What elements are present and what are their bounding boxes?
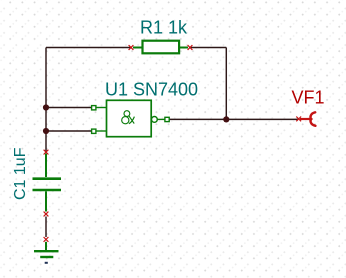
wire left vertical from top corner down to capacitor <box>45 48 47 153</box>
ground pin cross <box>44 237 49 242</box>
capacitor C1 bottom stub <box>45 191 47 211</box>
label U1 SN7400 <box>105 80 198 100</box>
svg-text:C1 1uF: C1 1uF <box>12 147 29 200</box>
U1 inversion bubble <box>152 117 158 123</box>
wire gate output to junction <box>169 118 226 120</box>
wire gate input 2 <box>46 130 92 132</box>
label VF1 <box>292 88 325 108</box>
resistor R1 body <box>133 41 188 54</box>
wire top from left corner to resistor left pin <box>46 47 131 49</box>
capacitor C1 pin cross top <box>44 150 49 155</box>
capacitor C1 bottom plate <box>33 189 62 192</box>
junction node B (left wire / input 2) <box>43 128 49 134</box>
wire gate input 1 <box>46 107 92 109</box>
capacitor C1 top plate <box>33 177 62 180</box>
junction node C (output / feedback / probe) <box>223 116 229 122</box>
U1 pin 1 square (input 1) <box>92 106 107 110</box>
svg-text:VF1: VF1 <box>292 88 325 108</box>
U1 output pin square <box>157 117 169 121</box>
label R1 1k <box>140 18 188 38</box>
svg-text:U1 SN7400: U1 SN7400 <box>105 80 198 100</box>
capacitor C1 top stub <box>45 154 47 178</box>
VF1 probe symbol <box>300 112 315 126</box>
resistor R1 pin cross left <box>129 45 134 50</box>
wire junction to VF1 probe <box>226 118 298 120</box>
junction node A (left wire / input 1) <box>43 104 49 110</box>
capacitor C1 pin cross bottom <box>44 212 49 217</box>
NAND gate U1 SN7400 body <box>107 100 152 136</box>
VF1 probe pin cross <box>296 117 301 122</box>
U1 pin 2 square (input 2) <box>92 129 107 133</box>
ground symbol <box>34 242 59 263</box>
resistor R1 pin cross right <box>188 45 193 50</box>
label C1 1uF <box>12 147 29 200</box>
svg-text:R1 1k: R1 1k <box>140 18 188 38</box>
wire capacitor bottom to ground pin <box>45 217 47 238</box>
wire right vertical from top corner down to junction <box>225 48 227 120</box>
wire resistor right pin to top-right corner <box>190 47 226 49</box>
